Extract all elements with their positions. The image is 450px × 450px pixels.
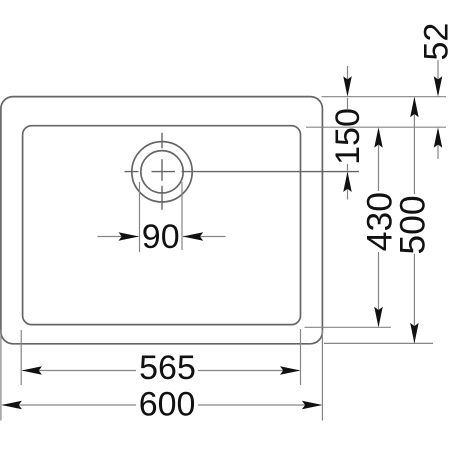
arrowhead 52 top (points down)	[434, 76, 443, 97]
dimension line 150	[347, 66, 349, 200]
dimension line 600	[3, 404, 321, 406]
extension line inner-bottom right	[305, 326, 392, 328]
arrowhead 600 left (points left)	[1, 401, 22, 410]
extension line outer-top right	[322, 96, 447, 98]
sink outer rim rect	[1, 97, 323, 344]
extension line inner-left down	[20, 330, 22, 385]
dimension line 565	[23, 370, 299, 372]
sink bowl inner rect	[23, 126, 301, 325]
dimension line 500	[413, 99, 415, 343]
svg-text:600: 600	[139, 386, 196, 424]
svg-text:500: 500	[392, 195, 432, 254]
extension line inner-top right	[306, 126, 446, 128]
extension line 90 left	[139, 182, 141, 252]
arrowhead 90 left (points right)	[119, 232, 140, 241]
arrowhead 565 right (points right)	[280, 366, 301, 375]
arrowhead 90 right (points left)	[183, 232, 204, 241]
dimension line 90 right part	[183, 236, 226, 238]
arrowhead 500 top (points up)	[410, 97, 419, 118]
drain outer circle	[132, 142, 192, 202]
extension line inner-right down	[300, 329, 302, 385]
arrowhead 600 right (points right)	[302, 401, 323, 410]
arrowhead 150 bottom (points up)	[343, 172, 352, 193]
extension line outer-left down	[0, 330, 2, 421]
svg-text:52: 52	[417, 23, 450, 61]
drain vertical centerline	[161, 133, 163, 210]
svg-text:150: 150	[329, 108, 367, 165]
drain horizontal centerline	[125, 171, 360, 173]
extension line 90 right	[181, 182, 183, 250]
dimension line 52	[437, 60, 439, 159]
svg-text:565: 565	[139, 349, 196, 387]
arrowhead 430 top (points up)	[374, 127, 383, 148]
dimension line 430	[378, 130, 380, 326]
drain inner circle	[141, 151, 183, 193]
dimension line 90 left part	[98, 236, 139, 238]
arrowhead 500 bottom (points down)	[410, 323, 419, 344]
arrowhead 565 left (points left)	[22, 366, 43, 375]
arrowhead 150 top (points down)	[343, 76, 352, 97]
extension line outer-bottom right	[324, 342, 433, 344]
svg-text:90: 90	[142, 218, 180, 256]
extension line outer-right down	[321, 330, 323, 421]
arrowhead 430 bottom (points down)	[374, 307, 383, 328]
arrowhead 52 bottom (points up)	[434, 127, 443, 148]
